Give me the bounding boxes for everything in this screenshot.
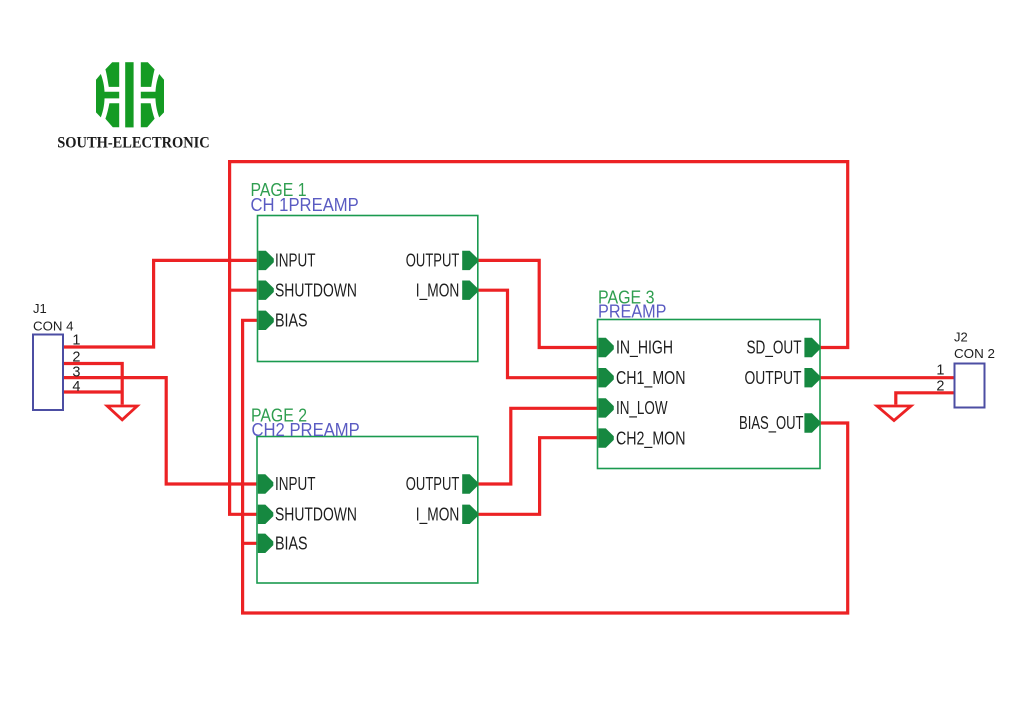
svg-text:IN_LOW: IN_LOW — [616, 398, 668, 419]
svg-text:CON 4: CON 4 — [33, 319, 74, 334]
svg-text:OUTPUT: OUTPUT — [745, 368, 802, 388]
svg-text:OUTPUT: OUTPUT — [406, 474, 460, 494]
svg-text:CH 1PREAMP: CH 1PREAMP — [251, 194, 359, 215]
svg-text:INPUT: INPUT — [275, 251, 316, 271]
svg-text:SHUTDOWN: SHUTDOWN — [275, 505, 357, 525]
svg-text:BIAS: BIAS — [275, 311, 308, 331]
svg-text:J2: J2 — [954, 330, 968, 345]
svg-text:CON 2: CON 2 — [954, 346, 995, 361]
svg-text:2: 2 — [72, 350, 80, 366]
svg-text:CH2_MON: CH2_MON — [616, 428, 686, 449]
svg-text:INPUT: INPUT — [275, 474, 316, 494]
svg-text:1: 1 — [936, 363, 944, 379]
svg-text:OUTPUT: OUTPUT — [406, 251, 460, 271]
svg-text:BIAS_OUT: BIAS_OUT — [739, 413, 804, 434]
svg-text:2: 2 — [936, 379, 944, 395]
svg-text:SD_OUT: SD_OUT — [747, 338, 802, 359]
svg-text:CH2 PREAMP: CH2 PREAMP — [252, 419, 360, 440]
svg-text:PREAMP: PREAMP — [598, 301, 667, 322]
svg-text:I_MON: I_MON — [416, 280, 460, 301]
svg-text:4: 4 — [72, 379, 80, 395]
svg-text:I_MON: I_MON — [416, 505, 460, 526]
svg-text:BIAS: BIAS — [275, 534, 308, 554]
svg-text:J1: J1 — [33, 301, 47, 316]
svg-text:CH1_MON: CH1_MON — [616, 368, 686, 389]
svg-text:SOUTH-ELECTRONIC: SOUTH-ELECTRONIC — [57, 134, 210, 151]
svg-text:SHUTDOWN: SHUTDOWN — [275, 280, 357, 300]
svg-text:1: 1 — [72, 333, 80, 349]
svg-text:IN_HIGH: IN_HIGH — [616, 338, 673, 359]
